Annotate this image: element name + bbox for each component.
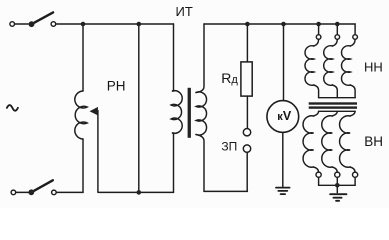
svg-text:ВН: ВН [364,134,383,149]
svg-text:кV: кV [277,109,292,123]
svg-text:ИТ: ИТ [176,4,193,19]
svg-text:НН: НН [364,60,383,75]
svg-text:ЗП: ЗП [221,139,237,153]
svg-text:РН: РН [107,78,126,93]
